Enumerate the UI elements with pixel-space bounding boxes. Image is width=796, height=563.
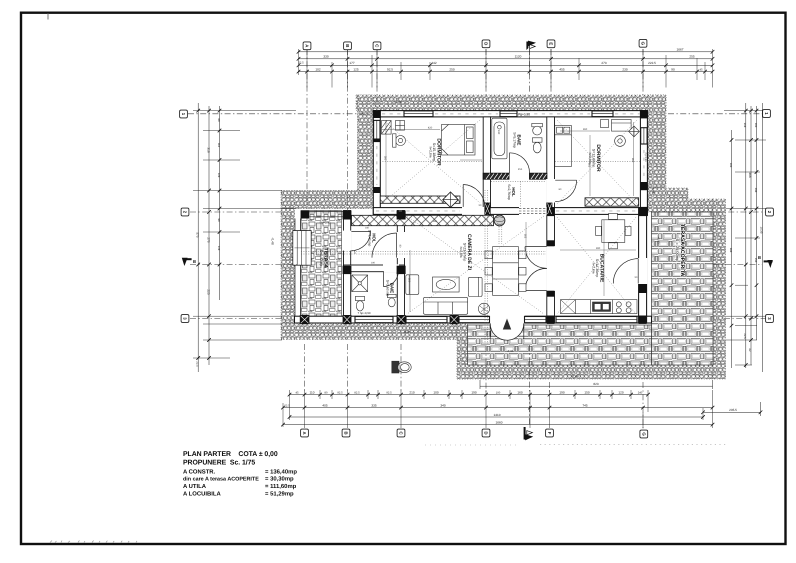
opening: terasa-hol door [343,231,352,251]
svg-text:D: D [484,431,489,434]
svg-text:80: 80 [325,391,328,394]
svg-text:A LOCUIBILA: A LOCUIBILA [183,490,221,497]
right dimension numbers rotated [729,123,764,352]
svg-text:368: 368 [729,248,732,253]
cobble connector (C1) [457,324,468,379]
lamp dormitor2 [629,126,640,137]
svg-text:125: 125 [353,68,358,72]
svg-text:A CONSTR.: A CONSTR. [183,469,216,476]
post: hol/baie2 west joint [343,266,352,274]
dim 823 line [480,385,713,387]
svg-text:235.5: 235.5 [729,408,737,412]
right extension horizontals [724,111,766,365]
opening: main entrance [490,316,525,324]
diagonal dormitor1 [383,120,480,203]
bubble B top [344,42,352,50]
wall: camera/bucatarie vertical [547,208,555,323]
drawer unit dormitor1 [396,121,405,131]
svg-text:255: 255 [689,55,694,59]
bubble C bottom [397,429,405,437]
post: upper-left corner [373,111,380,118]
wall: interior dorm1/baie [483,117,490,208]
svg-text:318: 318 [206,147,210,152]
svg-text:PLAN PARTER COTA ± 0,00: PLAN PARTER COTA ± 0,00 [183,451,278,458]
opening: dorm2 door in wall [546,179,555,203]
post: upper-right corner [640,111,647,119]
svg-text:390: 390 [596,247,601,250]
axis C2 bottom extension [400,344,402,392]
right chain line 4 [761,103,763,372]
post: camera/bucatarie door top [547,240,555,246]
svg-text:90: 90 [671,68,675,72]
left extension horizontals [193,111,296,358]
axis 2 horizontal right [716,211,766,213]
svg-text:455: 455 [559,68,564,72]
diagonals camera de zi [407,216,544,314]
svg-text:E: E [549,42,554,45]
svg-text:240: 240 [638,391,643,394]
section flag B right [758,255,773,268]
diagonal dormitor2 [557,120,637,204]
svg-text:C: C [375,44,380,47]
svg-text:270: 270 [206,237,210,242]
section flag A bottom [524,427,534,440]
bubble B bottom [342,429,350,437]
svg-text:100: 100 [433,390,438,394]
axis F bottom extension [549,382,551,392]
door: dormitor2 [555,180,576,201]
openings punched in walls [343,173,648,323]
top extension verticals [299,49,713,88]
svg-text:A: A [302,431,307,434]
svg-text:823: 823 [593,382,598,386]
bubble A top [303,42,311,50]
bubble F bottom [546,429,554,437]
bubble A bottom [301,429,309,437]
window: camera south 2 [459,317,490,323]
wall: hol/camera vertical [397,211,404,324]
opening: double door camera/bucatarie [546,246,555,291]
svg-text:250: 250 [449,68,454,72]
svg-text:+0,45: +0,45 [657,236,661,244]
post: south wall E [547,316,555,324]
wardrobe dormitor1 [382,121,392,135]
coffee table camera [433,277,460,292]
opening: hol passage [519,207,547,215]
door: baie2 [384,271,399,287]
top chain tick slashes [297,50,715,73]
wall: hol/baie2 horizontal [344,265,405,272]
svg-text:380: 380 [384,156,387,161]
svg-text:45: 45 [296,391,299,394]
post: left wall lower [373,187,380,193]
post: south wall A [300,315,310,324]
post: hol NE [397,211,406,220]
axis 1 horizontal right [668,113,762,115]
section A-A line top [528,49,530,94]
svg-text:80: 80 [217,119,220,122]
post: south wall C [397,315,406,324]
post: south wall F [639,316,647,324]
axis A bottom extension [304,344,306,392]
svg-text:365: 365 [588,163,591,168]
svg-text:350: 350 [408,278,411,283]
toilet baie2 [355,296,364,311]
svg-text:PROPUNERE Sc. 1/75: PROPUNERE Sc. 1/75 [183,459,255,466]
svg-text:570: 570 [196,232,200,237]
cobble band upper-right (A3) [647,95,666,188]
svg-text:190: 190 [471,390,476,394]
svg-text:B: B [758,255,761,260]
window: baie2 south [355,317,393,323]
svg-text:Pg=0,90: Pg=0,90 [518,113,530,117]
svg-text:B: B [345,44,350,47]
cobble patch above covered terrace (A4) [647,188,713,212]
svg-text:273: 273 [601,61,606,65]
svg-text:210: 210 [409,390,414,394]
bubble D top [482,40,490,48]
bubble 3 left [181,315,189,323]
axis 1 horizontal left [188,113,372,115]
svg-text:177: 177 [349,61,354,65]
left chain ticks [196,109,221,360]
desk dormitor2 [612,120,632,132]
wall: upper block right [640,111,647,216]
chair dormitor2 [615,136,626,147]
post: hol/baie2 east joint [397,266,406,274]
bottom chain line 4 [283,424,713,426]
svg-text:162: 162 [524,234,527,239]
bottom chain segment 235.5 [703,411,761,413]
svg-text:A UTILA: A UTILA [183,483,207,490]
axis 2 horizontal left [190,211,282,213]
svg-text:A: A [305,44,310,47]
bathtub baie1 [492,118,507,159]
svg-text:102: 102 [315,68,320,72]
bubble E top [547,40,555,48]
svg-text:298: 298 [754,188,757,193]
svg-text:-0,48: -0,48 [271,237,275,244]
right chain line 3 [756,106,758,340]
dashed open passage hol->walkway [519,208,547,213]
window: dormitor2 east [641,128,647,144]
svg-text:= 30,30mp: = 30,30mp [265,476,294,483]
door: baie1 [510,153,530,173]
svg-text:140: 140 [353,250,356,255]
right chain line 0 [731,130,733,368]
bubble G top [639,39,647,47]
section flag A top [526,41,536,50]
svg-text:1660: 1660 [496,420,503,424]
svg-text:din care A terasa ACOPERITE: din care A terasa ACOPERITE [183,477,259,483]
svg-text:110: 110 [310,390,315,394]
svg-text:22.5: 22.5 [298,62,304,65]
svg-text:62: 62 [748,349,751,352]
door: main entrance half-round swing [490,323,524,340]
sink baie1 [532,123,543,135]
svg-text:C: C [399,431,404,434]
cobble band top (A1) [356,95,666,111]
svg-text:-4,44: -4,44 [507,349,514,353]
south terrace slab paving (S2) [468,325,652,365]
sink bucatarie dark [593,302,611,311]
svg-text:-4,44: -4,44 [394,100,401,104]
section flag B left [182,258,196,266]
svg-text:= 111,60mp: = 111,60mp [265,483,297,490]
svg-text:TERASAS=5,33mp: TERASAS=5,33mp [319,248,328,269]
dining table camera [485,247,526,296]
svg-text:7 hp=0,90: 7 hp=0,90 [358,311,371,315]
beam hatch: dormitor2 [585,198,639,206]
terasa west parapet [295,219,300,317]
cobble band left of terrace (B1) [281,191,373,209]
sink baie2 [387,294,396,307]
toilet baie1 [532,138,542,153]
wall: upper block top [373,111,647,117]
post: camera/bucatarie door bottom [547,291,555,297]
opening: dormitor1 door [462,207,485,215]
wall: terrace/hol vertical [344,211,351,324]
door: double camera-bucatarie [525,247,547,291]
ridge dotted line through middle block [301,251,546,253]
svg-text:340: 340 [440,403,445,407]
bottom extension verticals [283,390,713,428]
floating WC symbol [392,361,411,373]
desk dormitor1 small [393,134,396,147]
beam hatch: hol/camera walkway [352,215,494,225]
section A-A line bottom [528,345,530,426]
axis B vertical [347,49,349,211]
window: camera south 1 [406,317,447,323]
bubble C top [373,42,381,50]
svg-text:-0,48: -0,48 [571,375,578,379]
beam hatch: dormitor1 [380,196,460,203]
kitchen table bucatarie [596,213,631,248]
wall: bucatarie east [639,208,647,323]
svg-text:396: 396 [433,220,438,223]
svg-text:92.5: 92.5 [386,391,392,394]
bubble 2 left [181,208,189,216]
post: bottom wall left of dorm1 door [484,203,490,215]
axis D bottom extension [485,346,487,392]
bubble 1 left [180,110,188,118]
left chain line 3 [219,106,221,300]
window: dormitor1 west [374,120,380,140]
bottom chain line 3 [290,416,704,418]
svg-text:240: 240 [497,130,500,135]
wall: middle block bottom [295,316,652,323]
cobble band upper-left (A2) [358,95,374,191]
svg-text:190: 190 [559,390,564,394]
terasa west steps [293,231,311,266]
svg-text:420: 420 [428,127,433,130]
hatch stripes on baie/hol wall [486,173,546,179]
stray tick top-left [47,13,49,20]
cobble band west of terrace (B2) [281,209,295,325]
top dimension numbers [298,48,703,72]
svg-text:22.5: 22.5 [196,361,199,367]
top chain line 3 [299,64,713,66]
wall masonry joint dashes [376,114,644,211]
svg-text:22.5: 22.5 [743,333,746,339]
left chain line 2 [208,106,210,365]
svg-text:= 51,29mp: = 51,29mp [265,490,294,497]
axis 3 horizontal left [190,318,282,320]
axis E vertical [550,49,552,95]
svg-text:-0,48: -0,48 [403,330,410,334]
opening: hol-camera door [397,232,406,258]
cobble band south-west (B3) [281,324,457,340]
faint dotted scan artifact line [540,444,726,446]
opening: bucatarie east door [638,258,647,284]
post: bucatarie east door bottom [639,284,647,293]
west terrace flagstones [301,211,342,321]
top chain line 1 [299,51,713,53]
axis G bottom extension [642,382,644,429]
right chain line 1 [745,103,747,368]
round column at walkway corner [494,215,505,226]
svg-text:360: 360 [583,128,588,131]
svg-text:45: 45 [700,69,703,72]
svg-text:155: 155 [518,168,523,171]
window: bucatarie south [556,317,637,323]
svg-text:82.5: 82.5 [354,391,360,394]
axis C vertical [376,49,378,111]
svg-text:B: B [193,259,196,264]
armchair camera left [406,275,419,295]
fridge X [561,300,576,314]
svg-text:Pg=0,90: Pg=0,90 [320,221,331,225]
bottom chain line 2 [283,407,713,409]
svg-text:222.5: 222.5 [648,61,656,65]
top chain line 2 [299,58,713,60]
svg-text:1667: 1667 [677,48,684,52]
window: baie1 north [500,111,517,117]
svg-text:92.5: 92.5 [387,68,393,72]
svg-text:22.5: 22.5 [284,404,290,407]
post: bucatarie east top [639,207,647,216]
svg-text:335: 335 [371,403,376,407]
right chain ticks [730,109,759,367]
axis G vertical [642,49,644,95]
bed dormitor1 [442,125,476,156]
svg-text:318: 318 [743,123,746,128]
svg-text:B: B [344,431,349,434]
svg-text:150: 150 [584,390,589,394]
small cabinet dormitor2 [601,120,609,128]
svg-text:D: D [484,42,489,45]
svg-text:260: 260 [631,158,634,163]
shower baie2 [352,275,368,292]
svg-text:148: 148 [217,246,220,251]
svg-text:190: 190 [371,262,376,265]
top chain line 4 [299,71,713,73]
svg-text:160: 160 [517,390,522,394]
kitchen counter [561,300,638,314]
post: bottom wall right of hol passage [547,203,553,216]
door: hol-camera [372,233,397,258]
svg-text:230: 230 [622,68,627,72]
post: south wall D [450,315,459,324]
section B-B line left [190,264,300,266]
wall: interior baie/dorm2 [547,117,555,208]
posts with white X marks on south wall [300,315,647,324]
bottom dimension numbers [284,382,737,424]
ridge dotted line upper block [380,161,483,163]
axis B bottom extension [347,344,349,392]
door: dormitor1 [463,185,485,207]
svg-text:150: 150 [754,258,757,263]
svg-text:745: 745 [582,403,587,407]
door: terasa-hol [351,232,370,251]
wall: upper block bottom [373,208,647,215]
post: camera/bucatarie wall top [547,207,555,216]
post: left wall below window [373,139,380,143]
stove burners [616,302,631,313]
terasa north parapet [309,211,342,216]
left chain line 1 [197,103,199,372]
svg-text:1120: 1120 [515,55,522,59]
axis A vertical [306,49,308,209]
diamond end of beam hatch [443,192,459,208]
svg-text:442: 442 [431,61,436,65]
svg-text:330: 330 [323,55,328,59]
chair dormitor1 [396,136,406,146]
window: dormitor1 north [404,111,433,117]
bubble 1 right [763,110,771,118]
svg-text:F: F [547,432,552,435]
dotted pair below column [498,227,500,245]
svg-text:-4,44: -4,44 [652,187,656,194]
armchair camera right [468,277,482,296]
svg-text:92.5: 92.5 [337,391,343,394]
svg-text:1410: 1410 [494,413,501,417]
svg-text:128: 128 [217,173,220,178]
svg-text:368: 368 [748,172,752,177]
covered terrace slab paving (S1) [652,212,714,365]
svg-text:120: 120 [618,390,623,394]
post: right wall at axis2 [640,207,647,216]
door: bucatarie-terasa acoperita [613,259,638,284]
left dimension numbers rotated [196,119,220,368]
interior room dimension strings [382,120,636,312]
wall: interior baie/hol horizontal hatched [483,173,509,179]
svg-text:103: 103 [754,123,757,128]
bottom chain line 1 [290,394,649,396]
svg-text:90: 90 [217,219,220,222]
axis D vertical [485,49,487,95]
sofa camera [424,297,468,314]
wall: upper block left [373,111,380,215]
cobble band south (C2) [457,365,713,379]
post: right wall mid [640,182,647,190]
svg-text:405: 405 [322,403,327,407]
bubble 2 right [766,208,774,216]
right chain line 2 [750,106,752,365]
bubble G bottom [640,430,648,438]
svg-text:103: 103 [729,163,732,168]
svg-text:Pg=0,90: Pg=0,90 [644,153,647,163]
faint pencil marks bottom-left [50,541,137,543]
svg-text:110: 110 [217,143,220,148]
cobble band east (C3) [713,199,726,379]
svg-text:160: 160 [365,226,370,229]
svg-text:= 136,40mp: = 136,40mp [265,469,297,476]
svg-text:1035: 1035 [760,227,764,234]
window: camera south 3 [525,317,547,323]
section B-B line right [713,264,762,266]
dotted ceiling edge hol1 [491,180,546,182]
